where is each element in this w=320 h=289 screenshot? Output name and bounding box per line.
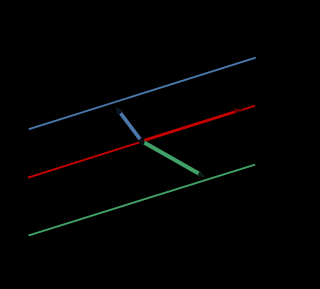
- blue line (top streamline): [29, 58, 256, 130]
- red vector arrow along middle line: [142, 109, 244, 141]
- blue vector arrow (up-left from junction): [115, 106, 141, 141]
- green line (bottom streamline): [29, 165, 256, 236]
- red line (middle streamline): [28, 106, 255, 178]
- junction dot on red line: [139, 138, 145, 145]
- green vector arrow (down-right from junction): [142, 141, 206, 177]
